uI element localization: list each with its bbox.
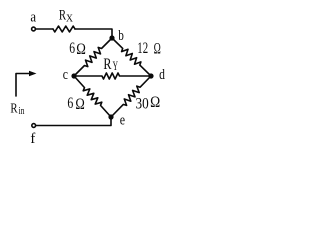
svg-text:12: 12 <box>137 40 148 57</box>
R_in arrow <box>16 74 30 97</box>
wire e to corner to f <box>36 117 111 126</box>
svg-text:b: b <box>118 28 124 44</box>
svg-text:e: e <box>120 113 125 129</box>
svg-text:a: a <box>30 10 36 26</box>
node b dot <box>109 35 114 40</box>
svg-text:X: X <box>66 13 73 25</box>
svg-text:f: f <box>30 131 35 147</box>
wire R_X to corner to node b <box>75 29 112 38</box>
svg-text:d: d <box>159 67 165 83</box>
svg-text:30: 30 <box>136 96 149 113</box>
svg-text:in: in <box>19 106 26 117</box>
node e dot <box>108 114 113 119</box>
resistor 12ohm b-d <box>112 38 151 76</box>
svg-text:6: 6 <box>67 95 73 112</box>
terminal f <box>32 124 36 128</box>
svg-text:Y: Y <box>113 59 118 73</box>
resistor 30ohm d-e <box>111 76 151 117</box>
resistor R_X <box>53 26 75 32</box>
svg-text:c: c <box>63 67 68 83</box>
svg-text:Ω: Ω <box>76 41 86 58</box>
resistor R_Y c-d <box>74 73 151 79</box>
svg-text:6: 6 <box>69 40 75 57</box>
svg-text:R: R <box>10 101 18 116</box>
terminal a <box>32 27 36 31</box>
node c dot <box>71 73 76 78</box>
svg-text:Ω: Ω <box>75 96 84 113</box>
svg-text:R: R <box>103 56 112 73</box>
resistor 6ohm c-e <box>74 76 111 117</box>
resistor 6ohm b-c <box>74 38 112 76</box>
svg-text:Ω: Ω <box>150 94 160 111</box>
node d dot <box>148 73 153 78</box>
R_in arrowhead <box>29 71 37 76</box>
wire a to R_X <box>36 28 53 30</box>
svg-text:Ω: Ω <box>154 40 161 57</box>
